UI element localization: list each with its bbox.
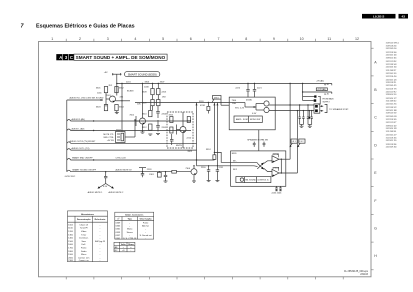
label box speaker R	[291, 139, 297, 143]
svg-text:3122 218 905: 3122 218 905	[386, 119, 397, 121]
svg-text:AUDIO IN L (TV) 0.35V SM. SOUN: AUDIO IN L (TV) 0.35V SM. SOUND	[70, 96, 104, 99]
svg-text:Chave s/l: Chave s/l	[79, 224, 88, 226]
svg-text:C: C	[70, 55, 73, 60]
svg-text:C: C	[374, 116, 377, 120]
resistor R3312	[149, 124, 152, 130]
svg-text:G: G	[374, 227, 377, 231]
svg-text:0341: 0341	[116, 238, 121, 240]
svg-text:-: -	[100, 244, 101, 246]
svg-text:-: -	[145, 229, 146, 231]
wire connector out 2	[320, 110, 323, 112]
capacitor C3321	[253, 89, 256, 91]
box control row	[236, 177, 271, 183]
svg-text:-: -	[100, 231, 101, 233]
resistor R3306	[151, 89, 154, 95]
svg-text:47K: 47K	[120, 96, 124, 98]
svg-text:Stereo: Stereo	[127, 231, 134, 234]
svg-text:MUTE: MUTE	[176, 145, 183, 147]
svg-text:2231: 2231	[219, 167, 224, 169]
svg-text:3198 010 301: 3198 010 301	[386, 57, 397, 59]
wire pin row	[303, 100, 314, 102]
svg-text:2422 025 155: 2422 025 155	[386, 140, 397, 142]
wire smart sound ctrl	[67, 159, 215, 161]
svg-text:2422 112 852: 2422 112 852	[386, 61, 397, 63]
ground under R3310	[148, 133, 152, 135]
capacitor C3340	[253, 142, 256, 144]
svg-text:0V/5V SVC: 0V/5V SVC	[65, 176, 76, 178]
svg-text:7306: 7306	[185, 168, 190, 170]
svg-text:1900: 1900	[68, 254, 73, 256]
svg-text:AMPL. SOM: AMPL. SOM	[236, 118, 248, 121]
vertical feed 1	[196, 103, 198, 166]
resistor R3360 on wire	[172, 170, 177, 173]
vertical feed 2	[213, 103, 215, 153]
svg-text:CONTROL IC: CONTROL IC	[257, 180, 269, 182]
svg-text:3324: 3324	[206, 149, 211, 151]
resistor R3361	[157, 172, 161, 177]
label box top connector	[316, 88, 327, 91]
svg-text:SND CTRL: SND CTRL	[103, 137, 114, 139]
svg-text:100K: 100K	[144, 87, 149, 89]
capacitor C3313	[156, 125, 160, 127]
svg-text:FROM MAIN: FROM MAIN	[323, 98, 334, 101]
svg-text:2203: 2203	[162, 91, 167, 93]
svg-text:A3C/pg 43: A3C/pg 43	[95, 240, 106, 243]
svg-text:2422 026 177: 2422 026 177	[386, 98, 397, 100]
svg-text:-: -	[129, 223, 130, 225]
svg-text:4: 4	[134, 37, 136, 41]
resistor R3303	[104, 105, 107, 111]
filter T C3353	[139, 167, 146, 169]
svg-text:-: -	[100, 224, 101, 226]
resistor R3317	[187, 117, 190, 123]
svg-text:D: D	[374, 143, 377, 147]
svg-text:3302: 3302	[119, 88, 124, 90]
svg-text:0365: 0365	[116, 226, 121, 228]
svg-text:Ohms: Ohms	[128, 244, 135, 246]
hook at bus end	[331, 84, 333, 86]
svg-text:2204: 2204	[162, 113, 167, 115]
svg-text:3303: 3303	[96, 107, 101, 109]
svg-text:6: 6	[190, 37, 192, 41]
wire control bus	[135, 102, 229, 104]
svg-text:2422 549 421: 2422 549 421	[386, 85, 397, 87]
svg-text:1600: 1600	[68, 244, 73, 246]
svg-text:SUPPLY: SUPPLY	[323, 102, 331, 104]
svg-text:1200: 1200	[68, 231, 73, 233]
svg-text:SM. SOUND: SM. SOUND	[245, 180, 256, 182]
svg-text:-: -	[100, 257, 101, 259]
svg-text:2422 026 150: 2422 026 150	[386, 67, 397, 69]
svg-text:+8V: +8V	[104, 72, 108, 74]
wire Q7003 emitter	[182, 133, 184, 149]
svg-text:+8V (A5): +8V (A5)	[316, 80, 324, 83]
svg-text:Esquemas Elétricos e Guias de: Esquemas Elétricos e Guias de Placas	[36, 23, 135, 29]
svg-text:Abreviaturas: Abreviaturas	[81, 213, 95, 216]
svg-text:A: A	[374, 60, 377, 64]
capacitor C3350	[207, 169, 210, 171]
svg-text:8: 8	[245, 37, 247, 41]
svg-text:+5V SS: +5V SS	[107, 140, 115, 142]
svg-text:2: 2	[79, 37, 81, 41]
svg-text:1100: 1100	[68, 228, 73, 230]
label box speaker L	[299, 139, 305, 143]
svg-text:3111 268 301: 3111 268 301	[386, 131, 396, 133]
svg-text:7002: 7002	[129, 115, 134, 117]
wire input AUDIO OUT R	[67, 142, 197, 144]
wire branch to IC box	[121, 84, 123, 132]
svg-text:Gabar. Conectores: Gabar. Conectores	[125, 213, 144, 216]
wire amp internal 1	[229, 102, 245, 104]
svg-text:2220: 2220	[235, 87, 240, 89]
wire opamp in 2	[197, 165, 255, 167]
chassis badge	[362, 14, 396, 19]
svg-text:3111 268 310: 3111 268 310	[386, 101, 396, 103]
arrow speaker R	[290, 143, 292, 146]
wire audio down R	[289, 84, 291, 160]
svg-text:3304: 3304	[119, 107, 124, 109]
svg-text:AUDIO MUTE 2: AUDIO MUTE 2	[109, 191, 125, 194]
divider drop 4.5V	[105, 172, 107, 177]
svg-text:2422 545 227: 2422 545 227	[386, 135, 397, 137]
svg-text:3322: 3322	[187, 151, 192, 153]
svg-text:A: A	[59, 55, 62, 60]
capacitor C3341	[263, 142, 266, 144]
transistor Q7304b	[264, 107, 269, 112]
svg-text:2422 549 010: 2422 549 010	[386, 48, 397, 50]
box sub B1	[167, 112, 193, 148]
svg-text:3139 118 200: 3139 118 200	[386, 45, 397, 47]
supply rail +8V bar	[112, 73, 122, 75]
ground under C3352	[164, 180, 168, 182]
capacitor C3345	[275, 187, 278, 189]
ground caps left	[301, 125, 303, 127]
pin 2 connector	[315, 109, 318, 112]
svg-text:3122 218 410: 3122 218 410	[386, 76, 397, 78]
svg-text:Alto fal.: Alto fal.	[142, 225, 149, 228]
svg-text:2205: 2205	[162, 127, 167, 129]
transistor Q7304a	[264, 101, 269, 106]
wire +8V bus	[117, 83, 332, 85]
resistor R3309	[157, 100, 160, 106]
capacitor C3351	[216, 169, 219, 171]
svg-text:3198 010 551: 3198 010 551	[386, 94, 397, 96]
svg-text:1800: 1800	[68, 251, 73, 253]
svg-text:S. Sound out: S. Sound out	[140, 234, 152, 237]
svg-text:SMART SOUND ON/OFF: SMART SOUND ON/OFF	[72, 168, 96, 171]
svg-text:S. S. CTRL IN: S. S. CTRL IN	[123, 238, 137, 240]
svg-text:Micro: Micro	[81, 253, 87, 256]
svg-text:1300: 1300	[68, 234, 73, 236]
ground under C3313	[156, 133, 160, 135]
wire Q7001 emitter out	[115, 100, 130, 102]
svg-text:B3S9: B3S9	[232, 153, 237, 155]
resistor R3307	[157, 89, 160, 95]
capacitor C3320	[246, 89, 249, 91]
vertical feed 3	[216, 103, 218, 166]
svg-text:0353: 0353	[116, 232, 121, 234]
svg-text:AUDIO OUT L (TV): AUDIO OUT L (TV)	[72, 147, 90, 150]
svg-text:1700: 1700	[68, 248, 73, 250]
svg-text:BC: BC	[115, 250, 118, 252]
bracket supply pins	[318, 96, 320, 104]
IC box 7303	[116, 132, 126, 143]
svg-text:10: 10	[300, 37, 304, 41]
input bus vertical	[66, 100, 68, 172]
svg-text:IN R: IN R	[233, 169, 238, 171]
svg-text:Tuner/Fl: Tuner/Fl	[80, 227, 88, 230]
svg-text:nº: nº	[117, 217, 119, 220]
svg-text:1002: 1002	[68, 224, 73, 226]
svg-text:Conect. av: Conect. av	[79, 259, 90, 262]
svg-text:-: -	[100, 228, 101, 230]
wire supply drop	[116, 74, 118, 95]
svg-text:Volts: Volts	[121, 243, 127, 246]
ground under Q7001	[116, 111, 118, 113]
ground under C3351	[215, 180, 219, 182]
svg-text:LS 1: LS 1	[292, 141, 296, 143]
svg-text:Fonte: Fonte	[143, 222, 149, 225]
svg-text:Mono: Mono	[127, 229, 133, 231]
switch crossfade	[257, 163, 263, 169]
svg-text:-: -	[100, 251, 101, 253]
svg-text:4.5V: 4.5V	[103, 186, 108, 188]
wire S-bend to opamp input	[214, 152, 230, 162]
svg-text:3310: 3310	[142, 113, 147, 115]
transistor Q7001	[110, 96, 116, 102]
svg-text:0.9V: 0.9V	[252, 113, 257, 115]
svg-text:3139 123 5991.1: 3139 123 5991.1	[386, 43, 399, 45]
svg-text:pg 40: pg 40	[324, 93, 329, 95]
svg-text:3111 268 377: 3111 268 377	[386, 70, 396, 72]
svg-text:3301: 3301	[96, 88, 101, 90]
svg-text:Defl.: Defl.	[82, 244, 87, 246]
wire speaker out R	[269, 104, 314, 106]
wire IC out	[125, 136, 135, 138]
pin supply 3	[314, 99, 317, 102]
svg-text:SMART SOUND (B3S9): SMART SOUND (B3S9)	[128, 73, 157, 77]
resistor R3316	[170, 127, 173, 133]
svg-text:43: 43	[401, 15, 405, 19]
svg-text:0369: 0369	[116, 223, 121, 225]
right margin parts list column	[386, 43, 399, 149]
svg-text:1: 1	[51, 37, 53, 41]
connector 0365	[314, 104, 320, 113]
node supply junction	[116, 83, 117, 84]
svg-text:B: B	[374, 88, 377, 92]
capacitor C3331	[302, 116, 304, 118]
svg-text:3361: 3361	[149, 174, 154, 176]
svg-text:H: H	[374, 254, 377, 258]
resistor R3301	[104, 87, 107, 93]
wire supply vertical	[302, 84, 304, 101]
ground under Q7306	[192, 180, 196, 182]
svg-text:AUDIO L (AV): AUDIO L (AV)	[72, 127, 85, 130]
svg-text:7003: 7003	[187, 121, 192, 123]
svg-text:pg 40: pg 40	[324, 84, 329, 86]
wire to opamp A	[264, 161, 272, 164]
svg-text:0361: 0361	[116, 229, 121, 231]
wire rail stubs	[152, 84, 154, 89]
svg-text:2422 025 100: 2422 025 100	[386, 55, 397, 57]
svg-text:100n: 100n	[97, 92, 102, 94]
svg-text:3306: 3306	[145, 81, 150, 83]
table: bobinas/conectores (right)	[115, 212, 154, 239]
svg-text:Observação: Observação	[140, 217, 153, 220]
svg-text:AUDIO R (AV): AUDIO R (AV)	[72, 118, 86, 121]
right row ticks	[371, 48, 374, 270]
svg-text:2422 112 912: 2422 112 912	[386, 91, 397, 93]
svg-text:AUDIO OUT R (TV) FRONT: AUDIO OUT R (TV) FRONT	[70, 140, 97, 143]
svg-text:Fonte: Fonte	[81, 247, 87, 250]
svg-text:3308: 3308	[142, 91, 147, 93]
svg-text:LS 2: LS 2	[300, 141, 304, 143]
resistor R3310	[149, 111, 152, 117]
svg-text:3198 010 322: 3198 010 322	[386, 125, 397, 127]
svg-text:231103: 231103	[360, 273, 368, 276]
wire opamp in 1	[231, 161, 258, 163]
svg-text:2K2: 2K2	[109, 85, 114, 87]
svg-text:Tv/av: Tv/av	[81, 234, 87, 236]
arrow to svc label	[106, 184, 113, 189]
svg-text:4558D: 4558D	[246, 100, 253, 102]
svg-text:-: -	[129, 235, 130, 237]
right row letters	[374, 60, 377, 258]
box control cells	[234, 116, 262, 123]
svg-text:1400: 1400	[68, 238, 73, 240]
svg-text:Tipo: Tipo	[128, 218, 133, 220]
ground caps right	[309, 125, 311, 127]
schematic micro labels	[65, 72, 349, 194]
svg-text:TDA: TDA	[232, 102, 237, 105]
wire opamp B out	[279, 172, 297, 174]
svg-text:3312: 3312	[142, 127, 147, 129]
capacitor C3332	[307, 116, 309, 118]
bracket speaker	[325, 104, 327, 112]
svg-text:-: -	[145, 232, 146, 234]
resistor R3315	[170, 117, 173, 123]
pin 1 connector	[315, 105, 318, 108]
svg-text:TO SPEAKER SYST.: TO SPEAKER SYST.	[329, 108, 349, 111]
svg-text:3122 218 900: 3122 218 900	[386, 52, 397, 54]
svg-text:2201: 2201	[126, 81, 131, 83]
svg-text:2422 545 255: 2422 545 255	[386, 103, 397, 105]
svg-text:2422 549 450: 2422 549 450	[386, 147, 397, 149]
svg-text:11: 11	[327, 37, 331, 41]
svg-text:SVC 2.2V: SVC 2.2V	[235, 107, 245, 109]
svg-text:2422 026 128: 2422 026 128	[386, 128, 397, 130]
svg-text:7305A: 7305A	[273, 153, 279, 156]
svg-text:1500: 1500	[68, 241, 73, 243]
svg-text:2422 545 201: 2422 545 201	[386, 73, 397, 75]
svg-text:0357: 0357	[116, 235, 121, 237]
wire Q7003 collector	[182, 112, 184, 127]
svg-text:7: 7	[21, 23, 25, 29]
svg-text:Som: Som	[82, 241, 87, 243]
page number box	[399, 14, 409, 19]
svg-text:CTRL 0-5V: CTRL 0-5V	[116, 158, 127, 160]
svg-text:Referência: Referência	[95, 218, 106, 221]
arrow speaker L	[298, 143, 300, 146]
capacitor C3318	[170, 139, 174, 141]
svg-text:SMART SND ON/OFF: SMART SND ON/OFF	[72, 157, 93, 160]
op-amp U7305A	[272, 156, 279, 163]
svg-text:3139 123 592: 3139 123 592	[386, 113, 397, 115]
wire drop to opamp box	[258, 130, 260, 151]
svg-text:3122 138 509: 3122 138 509	[386, 64, 397, 66]
svg-text:-: -	[100, 248, 101, 250]
svg-text:2210: 2210	[187, 138, 192, 140]
wire opamp A out	[279, 158, 290, 160]
svg-text:BC858: BC858	[127, 91, 134, 93]
svg-text:+12V (A6): +12V (A6)	[317, 88, 326, 91]
svg-text:-: -	[100, 254, 101, 256]
opamp box B3S9	[231, 151, 286, 186]
svg-text:7305B: 7305B	[274, 168, 280, 170]
svg-text:-: -	[129, 226, 130, 228]
transistor Q7002	[140, 118, 146, 124]
svg-text:3122 218 455: 3122 218 455	[386, 137, 397, 139]
svg-text:2233: 2233	[147, 169, 152, 171]
svg-text:3139 118 266: 3139 118 266	[386, 144, 397, 146]
svg-text:MONO 3W: MONO 3W	[250, 119, 260, 121]
svg-text:+-: +-	[130, 247, 132, 249]
op-amp U7305B	[272, 169, 279, 176]
svg-text:Control. rem: Control. rem	[78, 256, 90, 259]
capacitor C3330	[299, 116, 301, 118]
title block: sheet code cells	[56, 54, 74, 60]
svg-text:3122 138 522: 3122 138 522	[386, 107, 397, 109]
wire audio down L	[296, 111, 298, 173]
svg-text:-: -	[100, 238, 101, 240]
capacitor C3352	[164, 174, 167, 176]
svg-text:2422 549 033: 2422 549 033	[386, 116, 397, 118]
wire input AUDIO OUT L	[67, 149, 197, 151]
resistor R3308	[151, 100, 154, 106]
svg-text:3122 218 770: 3122 218 770	[386, 89, 397, 91]
transistor Q7306	[191, 169, 197, 175]
svg-text:AUDIO MUTE 5V: AUDIO MUTE 5V	[116, 168, 133, 171]
wire amp internal 2	[256, 103, 264, 105]
svg-text:SMART SOUND + AMPL. DE SOM/MON: SMART SOUND + AMPL. DE SOM/MONO	[76, 55, 166, 60]
amplifier box IC7304	[229, 97, 275, 130]
svg-text:2422 025 120: 2422 025 120	[386, 79, 397, 81]
svg-text:MUTE CTL: MUTE CTL	[103, 134, 114, 136]
svg-text:AUDIO MUTE 1: AUDIO MUTE 1	[88, 191, 104, 194]
svg-text:Saida: Saida	[81, 251, 87, 253]
pin supply 2	[314, 95, 316, 97]
wire input AUDIO L	[67, 129, 191, 131]
resistor R3323	[207, 103, 209, 107]
resistor R3322 on feed 2	[213, 155, 216, 160]
svg-text:3307: 3307	[160, 81, 165, 83]
transistor Q7003	[180, 127, 186, 133]
wire emitter Q7002	[142, 124, 144, 132]
ground arrow J	[308, 111, 310, 117]
svg-text:12: 12	[355, 37, 359, 41]
svg-text:10K: 10K	[137, 104, 141, 106]
top column ticks	[66, 39, 343, 42]
svg-text:2000: 2000	[68, 257, 73, 259]
wire mute line	[67, 170, 191, 172]
svg-text:2245 2246: 2245 2246	[272, 193, 283, 195]
svg-text:F: F	[374, 199, 377, 203]
wire input AUDIO R	[67, 120, 191, 122]
svg-text:2230: 2230	[201, 167, 206, 169]
wire connector out 1	[320, 105, 323, 107]
svg-text:SPEAKER 8 OHM 3W: SPEAKER 8 OHM 3W	[247, 139, 268, 142]
pilot circle	[240, 178, 243, 181]
